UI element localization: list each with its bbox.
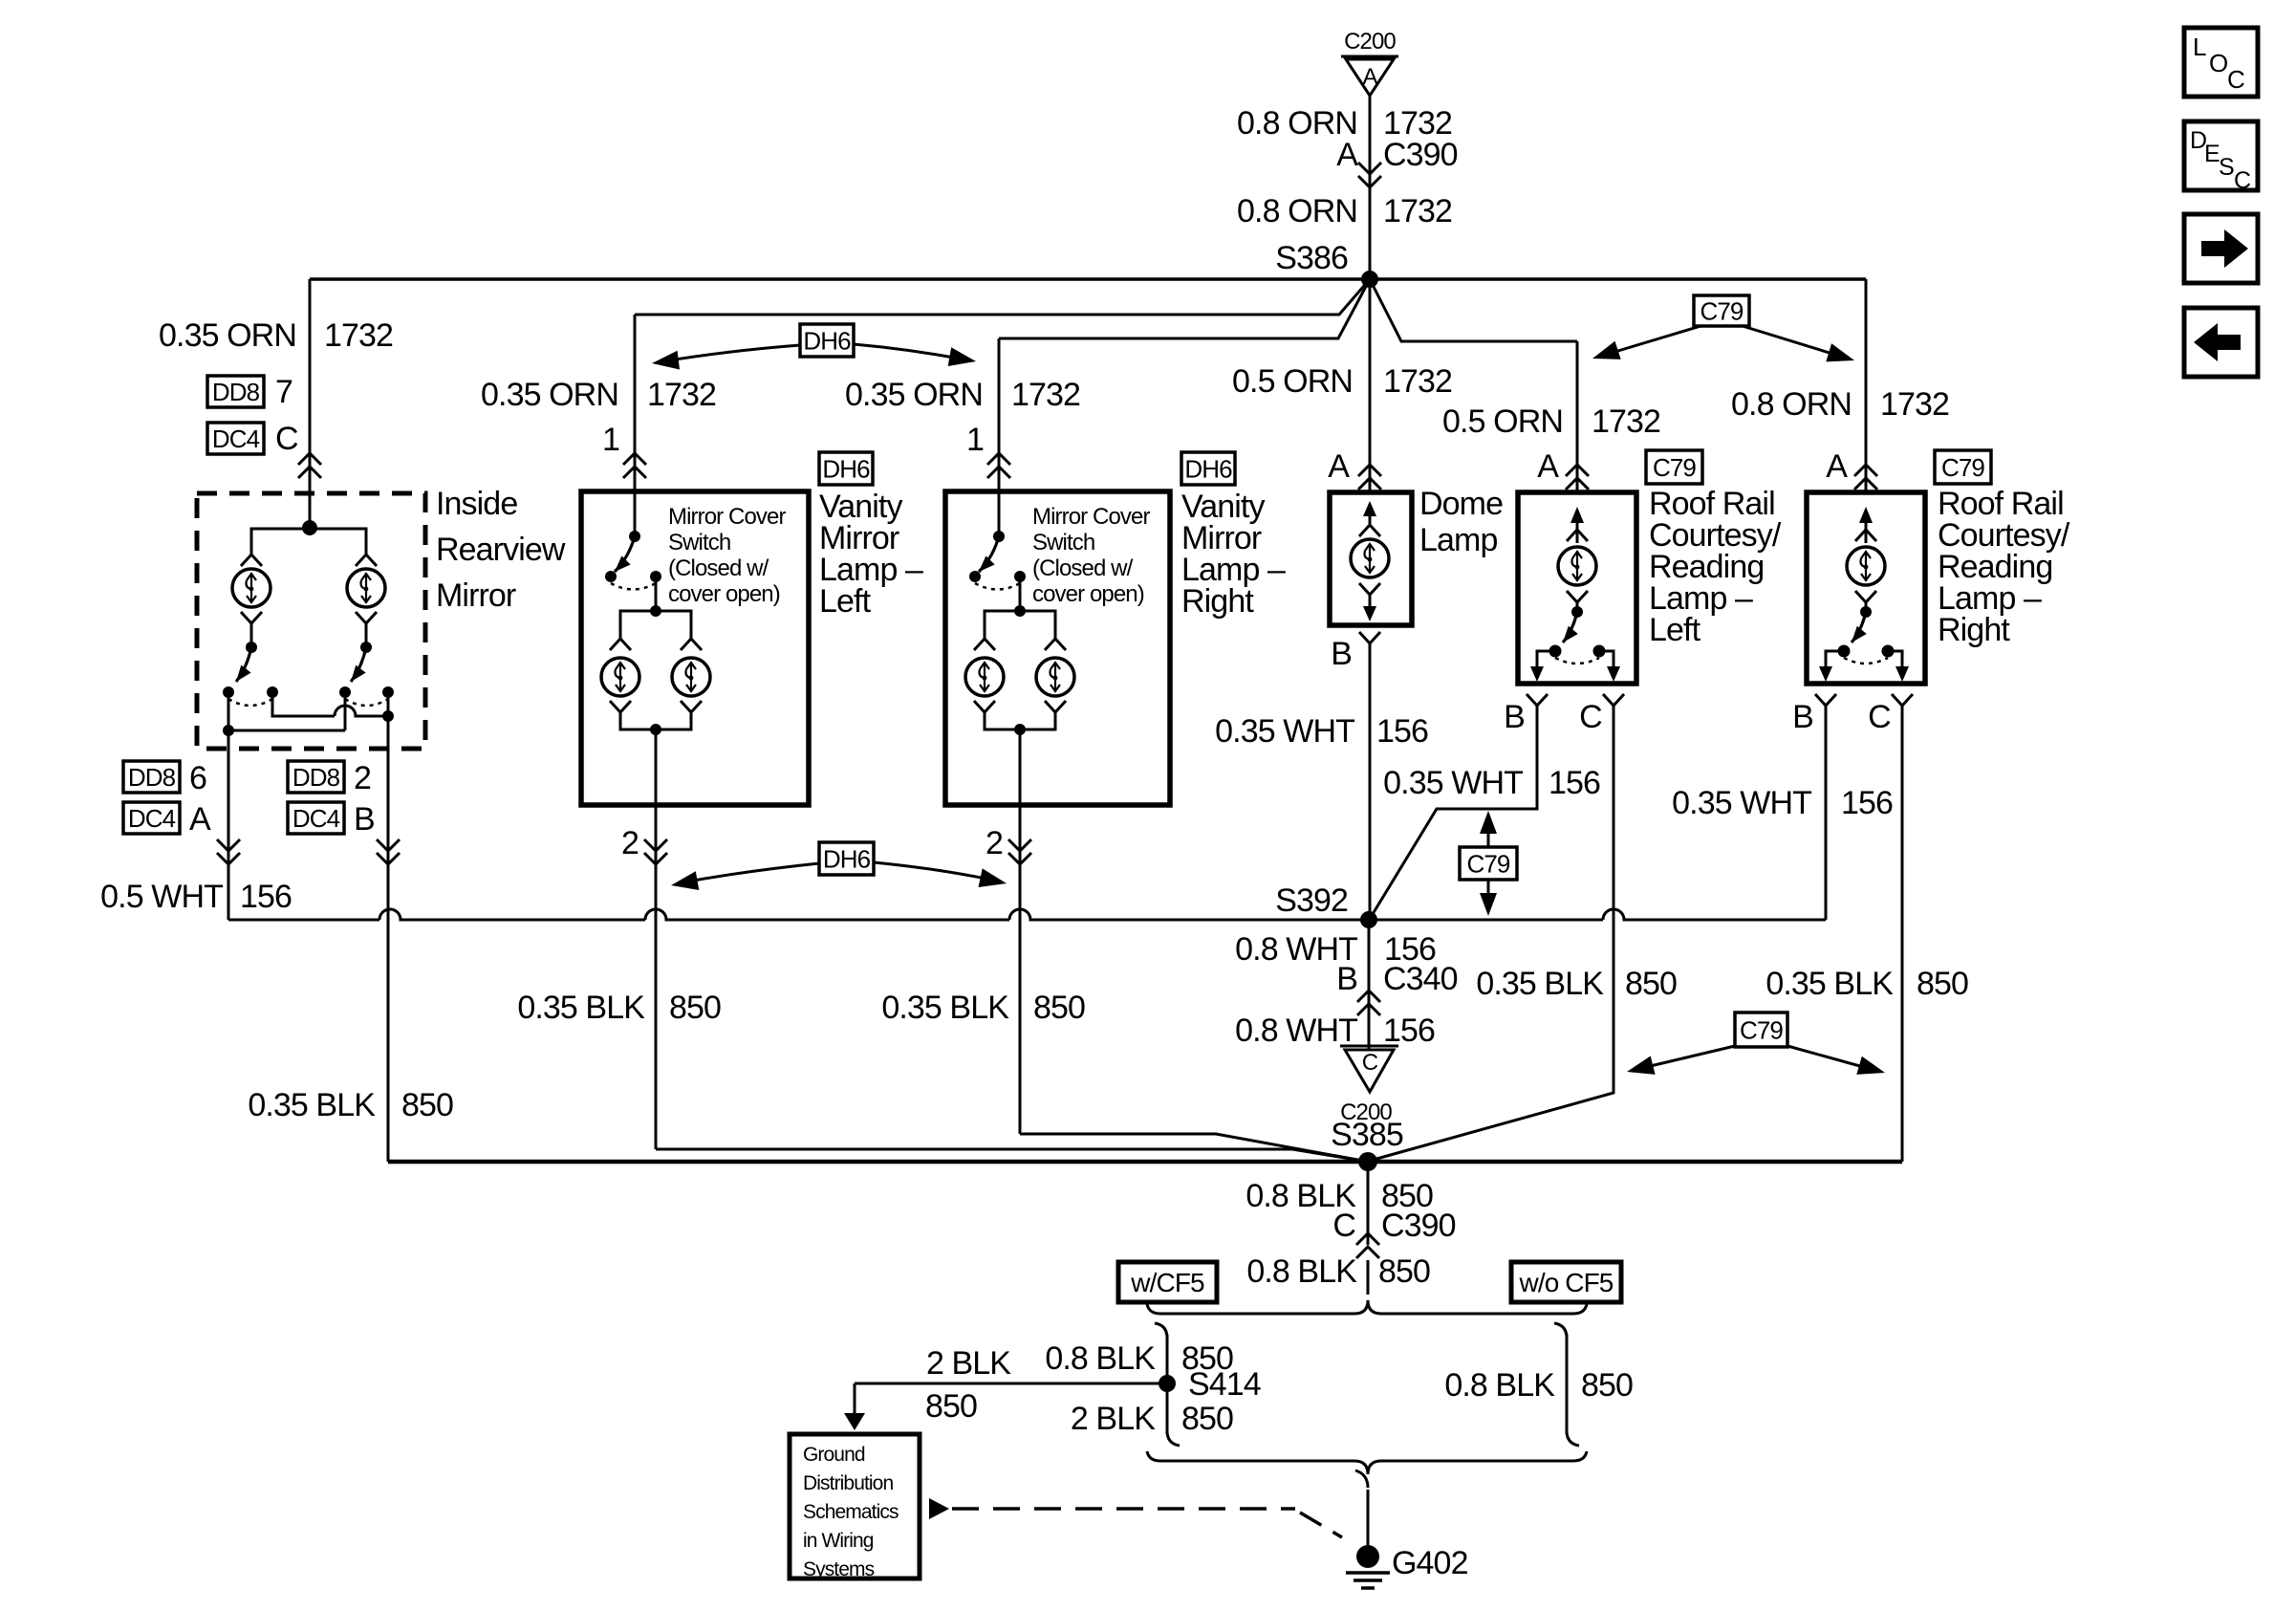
svg-text:Mirror Cover: Mirror Cover — [668, 504, 786, 530]
svg-text:S386: S386 — [1275, 240, 1348, 276]
svg-text:A: A — [189, 801, 211, 838]
svg-text:Schematics: Schematics — [803, 1501, 899, 1523]
svg-text:C: C — [275, 421, 298, 457]
svg-text:0.35 ORN: 0.35 ORN — [481, 377, 618, 413]
svg-text:C79: C79 — [1740, 1015, 1783, 1044]
svg-text:DH6: DH6 — [1184, 454, 1232, 483]
svg-text:A: A — [1537, 448, 1559, 485]
svg-text:S414: S414 — [1188, 1366, 1261, 1403]
svg-text:C: C — [1868, 699, 1891, 735]
svg-text:S385: S385 — [1331, 1117, 1403, 1153]
svg-text:cover open): cover open) — [1032, 581, 1144, 607]
svg-text:1732: 1732 — [1383, 193, 1452, 229]
svg-text:C340: C340 — [1383, 961, 1458, 997]
svg-text:Rearview: Rearview — [436, 532, 566, 568]
svg-text:DC4: DC4 — [128, 804, 176, 833]
svg-text:0.35 ORN: 0.35 ORN — [159, 317, 296, 354]
svg-text:1732: 1732 — [1011, 377, 1080, 413]
svg-text:Left: Left — [819, 583, 872, 620]
svg-text:1732: 1732 — [324, 317, 393, 354]
svg-text:DC4: DC4 — [212, 425, 260, 453]
svg-text:S: S — [2219, 154, 2234, 181]
svg-text:0.8 ORN: 0.8 ORN — [1237, 193, 1357, 229]
svg-text:DD8: DD8 — [292, 763, 340, 792]
svg-text:0.5 WHT: 0.5 WHT — [100, 879, 223, 915]
svg-text:850: 850 — [669, 990, 721, 1026]
svg-text:0.8 WHT: 0.8 WHT — [1235, 1012, 1357, 1049]
svg-text:0.35 BLK: 0.35 BLK — [517, 990, 645, 1026]
svg-text:Switch: Switch — [1032, 530, 1094, 555]
svg-text:A: A — [1328, 448, 1350, 485]
svg-text:0.35 WHT: 0.35 WHT — [1215, 713, 1354, 750]
svg-text:O: O — [2209, 49, 2227, 77]
svg-text:0.35 BLK: 0.35 BLK — [1765, 966, 1894, 1002]
svg-text:C: C — [2227, 65, 2244, 94]
svg-text:C: C — [2234, 167, 2251, 194]
svg-text:S392: S392 — [1275, 882, 1348, 919]
svg-text:0.5 ORN: 0.5 ORN — [1442, 403, 1563, 440]
svg-text:C: C — [1362, 1050, 1378, 1076]
svg-text:C: C — [1579, 699, 1602, 735]
svg-text:w/o CF5: w/o CF5 — [1519, 1268, 1614, 1297]
svg-text:7: 7 — [275, 374, 292, 410]
svg-text:0.35 BLK: 0.35 BLK — [881, 990, 1009, 1026]
svg-text:Distribution: Distribution — [803, 1472, 893, 1494]
svg-text:850: 850 — [1181, 1401, 1233, 1437]
svg-text:B: B — [1331, 636, 1352, 672]
svg-text:850: 850 — [401, 1087, 453, 1123]
svg-text:Inside: Inside — [436, 486, 517, 522]
svg-text:0.5 ORN: 0.5 ORN — [1232, 363, 1353, 400]
svg-text:850: 850 — [925, 1388, 977, 1425]
svg-text:Mirror: Mirror — [436, 577, 516, 614]
svg-text:0.35 WHT: 0.35 WHT — [1672, 785, 1811, 821]
svg-text:0.35 BLK: 0.35 BLK — [1476, 966, 1604, 1002]
svg-text:DD8: DD8 — [212, 378, 260, 406]
svg-text:w/CF5: w/CF5 — [1130, 1268, 1204, 1297]
svg-text:0.35 ORN: 0.35 ORN — [845, 377, 983, 413]
svg-text:Ground: Ground — [803, 1444, 865, 1466]
svg-text:in Wiring: in Wiring — [803, 1530, 874, 1552]
svg-text:Systems: Systems — [803, 1558, 875, 1580]
svg-text:1732: 1732 — [1383, 363, 1452, 400]
svg-text:G402: G402 — [1392, 1545, 1468, 1581]
svg-text:A: A — [1826, 448, 1848, 485]
svg-text:B: B — [1504, 699, 1525, 735]
svg-text:A: A — [1362, 64, 1377, 90]
svg-text:850: 850 — [1033, 990, 1085, 1026]
svg-text:156: 156 — [1549, 765, 1600, 801]
svg-text:6: 6 — [189, 760, 206, 796]
svg-text:C79: C79 — [1700, 296, 1744, 325]
svg-text:Mirror Cover: Mirror Cover — [1032, 504, 1150, 530]
svg-text:cover open): cover open) — [668, 581, 780, 607]
svg-text:0.35 WHT: 0.35 WHT — [1383, 765, 1523, 801]
svg-text:C390: C390 — [1383, 137, 1458, 173]
svg-text:DH6: DH6 — [822, 454, 870, 483]
svg-text:B: B — [1792, 699, 1813, 735]
svg-text:L: L — [2193, 33, 2206, 61]
svg-text:E: E — [2204, 141, 2220, 167]
svg-text:2: 2 — [354, 760, 371, 796]
svg-text:2 BLK: 2 BLK — [1071, 1401, 1156, 1437]
svg-text:B: B — [354, 801, 375, 838]
svg-text:C200: C200 — [1344, 29, 1396, 54]
svg-text:(Closed w/: (Closed w/ — [1032, 555, 1134, 581]
svg-text:DD8: DD8 — [128, 763, 176, 792]
svg-text:0.8 BLK: 0.8 BLK — [1045, 1340, 1156, 1377]
svg-text:2: 2 — [621, 825, 639, 861]
svg-text:C79: C79 — [1467, 849, 1510, 878]
svg-text:156: 156 — [240, 879, 292, 915]
svg-text:850: 850 — [1917, 966, 1968, 1002]
svg-text:1: 1 — [966, 422, 984, 458]
svg-text:0.8 ORN: 0.8 ORN — [1731, 386, 1852, 423]
svg-text:DH6: DH6 — [803, 326, 851, 355]
svg-text:Right: Right — [1181, 583, 1254, 620]
svg-text:0.8 BLK: 0.8 BLK — [1444, 1367, 1555, 1404]
svg-text:C79: C79 — [1653, 453, 1696, 482]
svg-text:Dome: Dome — [1419, 486, 1503, 522]
svg-text:DC4: DC4 — [292, 804, 340, 833]
svg-text:1732: 1732 — [647, 377, 716, 413]
svg-text:0.35 BLK: 0.35 BLK — [248, 1087, 376, 1123]
svg-text:1732: 1732 — [1592, 403, 1660, 440]
svg-text:Switch: Switch — [668, 530, 730, 555]
svg-text:0.8 BLK: 0.8 BLK — [1246, 1253, 1357, 1290]
svg-text:850: 850 — [1581, 1367, 1633, 1404]
svg-text:A: A — [1336, 137, 1358, 173]
svg-text:156: 156 — [1841, 785, 1893, 821]
svg-text:C79: C79 — [1941, 453, 1984, 482]
svg-text:B: B — [1336, 961, 1357, 997]
svg-text:(Closed w/: (Closed w/ — [668, 555, 769, 581]
svg-text:850: 850 — [1378, 1253, 1430, 1290]
svg-text:1732: 1732 — [1880, 386, 1949, 423]
svg-text:DH6: DH6 — [823, 844, 871, 873]
svg-text:Left: Left — [1649, 612, 1701, 648]
svg-text:156: 156 — [1376, 713, 1428, 750]
svg-text:850: 850 — [1625, 966, 1677, 1002]
svg-text:1: 1 — [602, 422, 619, 458]
svg-text:Right: Right — [1938, 612, 2010, 648]
svg-text:2: 2 — [986, 825, 1003, 861]
svg-text:C: C — [1332, 1208, 1355, 1244]
svg-text:2 BLK: 2 BLK — [926, 1345, 1011, 1382]
svg-text:Lamp: Lamp — [1419, 522, 1497, 558]
svg-text:156: 156 — [1383, 1012, 1435, 1049]
svg-text:C390: C390 — [1381, 1208, 1456, 1244]
